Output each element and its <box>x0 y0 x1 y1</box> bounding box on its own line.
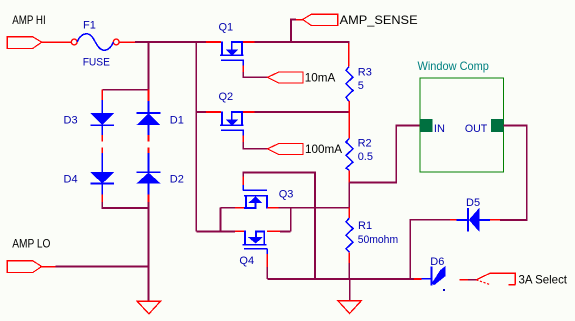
svg-text:50mohm: 50mohm <box>358 234 398 246</box>
connector 3A_Select <box>476 273 515 284</box>
wire bridge bottom corner <box>102 202 148 208</box>
ground (right) <box>349 279 351 301</box>
svg-text:FUSE: FUSE <box>83 56 110 68</box>
resistor R1 <box>348 208 350 218</box>
svg-text:10mA: 10mA <box>305 71 336 84</box>
ground (left) <box>137 301 160 314</box>
svg-text:AMP HI: AMP HI <box>12 14 46 27</box>
svg-text:3A Select: 3A Select <box>519 274 568 287</box>
diode D5 <box>450 219 457 221</box>
resistor R2 <box>346 139 353 171</box>
svg-text:AMP LO: AMP LO <box>12 238 50 251</box>
wire Q3 drain line <box>221 207 236 209</box>
diode D6 (zener, angled) <box>414 278 422 280</box>
transistor Q3 <box>235 177 293 209</box>
svg-text:Q3: Q3 <box>279 189 294 201</box>
box Window Comp U1 <box>420 78 504 172</box>
svg-text:D6: D6 <box>430 256 444 268</box>
diode D1 <box>148 90 150 101</box>
svg-text:F1: F1 <box>83 20 96 32</box>
wire R2 junction down <box>348 183 350 208</box>
connector 10mA <box>267 72 303 83</box>
wire D5 to rail corner <box>410 220 450 279</box>
wire Q4 gate to bottom rail <box>266 267 268 279</box>
svg-text:R1: R1 <box>358 220 372 232</box>
svg-text:D2: D2 <box>170 174 184 186</box>
wire Q4 drain line <box>196 231 235 233</box>
wire D2 column down to AMP_LO and ground <box>148 202 150 301</box>
wire Q2 drain line <box>196 111 206 113</box>
wire top rail <box>135 41 206 43</box>
wire Q2 gate to 100mA <box>243 142 267 149</box>
svg-text:5: 5 <box>358 80 364 92</box>
diode D2 <box>148 148 150 154</box>
svg-text:D3: D3 <box>64 115 78 127</box>
wire OUT to D5 <box>500 126 526 221</box>
svg-text:D1: D1 <box>170 115 184 127</box>
wire Q3 gate up and over <box>243 173 315 280</box>
svg-text:AMP_SENSE: AMP_SENSE <box>340 14 418 27</box>
svg-text:Q1: Q1 <box>219 22 234 34</box>
connector AMP_SENSE <box>303 14 338 25</box>
svg-text:0.5: 0.5 <box>358 151 373 163</box>
transistor Q1 <box>206 22 255 72</box>
svg-text:Window Comp: Window Comp <box>418 59 490 73</box>
wire dash to 3A Select <box>459 279 468 281</box>
wire rail drop to bridge <box>148 42 150 90</box>
transistor Q4 <box>235 231 280 267</box>
diode D3 <box>101 90 103 100</box>
svg-text:100mA: 100mA <box>305 143 342 156</box>
wire left vertical x=196 <box>195 42 197 232</box>
svg-text:IN: IN <box>434 123 445 135</box>
wire Q1 gate to 10mA <box>243 72 267 77</box>
wire AMP_HI to fuse <box>42 41 72 43</box>
wire R2 junction to window comp IN <box>349 126 420 183</box>
wire AMP_LO <box>42 266 56 268</box>
svg-text:D4: D4 <box>64 174 78 186</box>
svg-text:R2: R2 <box>358 138 372 150</box>
wire AMP_SENSE tap <box>291 20 296 43</box>
resistor R3 <box>348 44 350 67</box>
connector AMP_HI <box>7 37 42 49</box>
fuse F1 <box>71 39 77 45</box>
svg-text:Q4: Q4 <box>239 255 254 267</box>
svg-text:R3: R3 <box>358 67 372 79</box>
svg-text:D5: D5 <box>466 197 480 209</box>
connector 100mA <box>267 143 303 154</box>
wire fuse to rail <box>119 41 135 43</box>
wire Q3 to Q4 right drop <box>290 208 292 232</box>
svg-text:Q2: Q2 <box>219 91 234 103</box>
wire bottom rail <box>267 278 414 280</box>
diode D4 <box>101 148 103 154</box>
wire Q3 to Q4 left drop <box>220 208 222 232</box>
wire bridge top tee <box>102 89 148 91</box>
svg-text:OUT: OUT <box>465 123 488 135</box>
connector AMP_LO <box>7 261 42 273</box>
transistor Q2 <box>206 91 255 142</box>
